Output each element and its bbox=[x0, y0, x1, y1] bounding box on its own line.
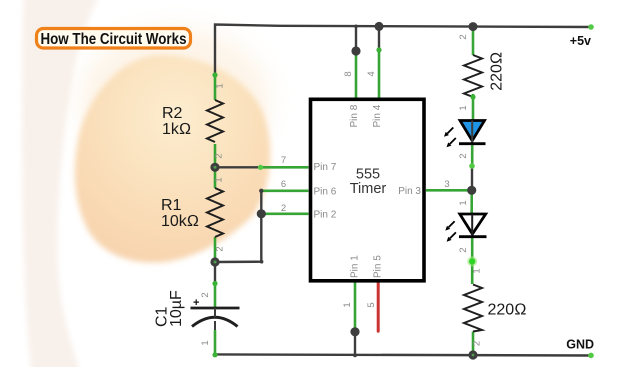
svg-text:2: 2 bbox=[214, 153, 225, 158]
svg-text:1: 1 bbox=[214, 177, 225, 182]
svg-text:2: 2 bbox=[458, 34, 469, 39]
svg-text:Timer: Timer bbox=[350, 181, 387, 197]
svg-text:1: 1 bbox=[458, 200, 469, 205]
svg-text:1: 1 bbox=[472, 268, 483, 273]
svg-text:4: 4 bbox=[366, 71, 377, 76]
svg-text:1: 1 bbox=[200, 340, 211, 345]
svg-text:220Ω: 220Ω bbox=[488, 302, 527, 319]
svg-text:2: 2 bbox=[200, 292, 211, 297]
svg-text:2: 2 bbox=[215, 246, 226, 251]
svg-text:1: 1 bbox=[215, 83, 226, 88]
svg-text:Pin 2: Pin 2 bbox=[314, 210, 337, 221]
svg-text:Pin 4: Pin 4 bbox=[372, 104, 383, 127]
svg-text:8: 8 bbox=[343, 71, 354, 76]
svg-text:5: 5 bbox=[366, 302, 377, 307]
svg-text:7: 7 bbox=[281, 155, 286, 166]
svg-text:10µF: 10µF bbox=[168, 290, 185, 327]
svg-text:3: 3 bbox=[444, 179, 449, 190]
svg-text:Pin 7: Pin 7 bbox=[314, 162, 337, 173]
svg-text:1: 1 bbox=[458, 105, 469, 110]
svg-text:6: 6 bbox=[281, 179, 286, 190]
svg-text:220Ω: 220Ω bbox=[488, 52, 505, 91]
svg-text:1kΩ: 1kΩ bbox=[162, 121, 191, 138]
svg-text:Pin 1: Pin 1 bbox=[349, 255, 360, 278]
svg-text:GND: GND bbox=[566, 338, 594, 352]
svg-text:2: 2 bbox=[458, 247, 469, 252]
svg-text:Pin 3: Pin 3 bbox=[398, 186, 421, 197]
svg-text:2: 2 bbox=[458, 153, 469, 158]
svg-text:How The Circuit Works: How The Circuit Works bbox=[41, 31, 187, 48]
svg-text:+: + bbox=[193, 297, 199, 309]
svg-text:Pin 5: Pin 5 bbox=[373, 255, 384, 278]
svg-text:Pin 6: Pin 6 bbox=[314, 187, 337, 198]
svg-text:2: 2 bbox=[472, 341, 483, 346]
svg-text:1: 1 bbox=[342, 302, 353, 307]
svg-text:R2: R2 bbox=[162, 105, 183, 122]
svg-text:Pin 8: Pin 8 bbox=[349, 104, 360, 127]
svg-text:R1: R1 bbox=[161, 197, 182, 214]
svg-text:+5v: +5v bbox=[570, 34, 591, 48]
svg-text:2: 2 bbox=[281, 203, 286, 214]
svg-text:10kΩ: 10kΩ bbox=[161, 213, 199, 230]
